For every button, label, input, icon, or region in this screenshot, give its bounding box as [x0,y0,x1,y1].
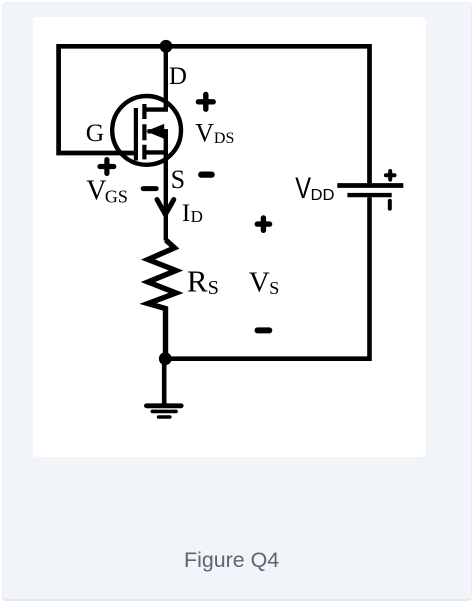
svg-text:S: S [269,278,279,298]
svg-text:D: D [169,63,187,90]
svg-text:V: V [86,175,106,206]
svg-text:V: V [295,172,311,205]
svg-text:V: V [195,118,214,147]
svg-text:Figure Q4: Figure Q4 [184,548,279,572]
svg-text:D: D [191,207,203,226]
svg-text:DD: DD [311,187,335,204]
svg-text:I: I [182,200,190,227]
svg-text:R: R [187,263,208,298]
svg-text:S: S [208,277,219,299]
svg-text:DS: DS [214,130,235,147]
svg-text:V: V [249,266,270,298]
svg-text:S: S [171,165,185,194]
svg-text:GS: GS [105,186,128,206]
svg-text:G: G [86,118,104,147]
